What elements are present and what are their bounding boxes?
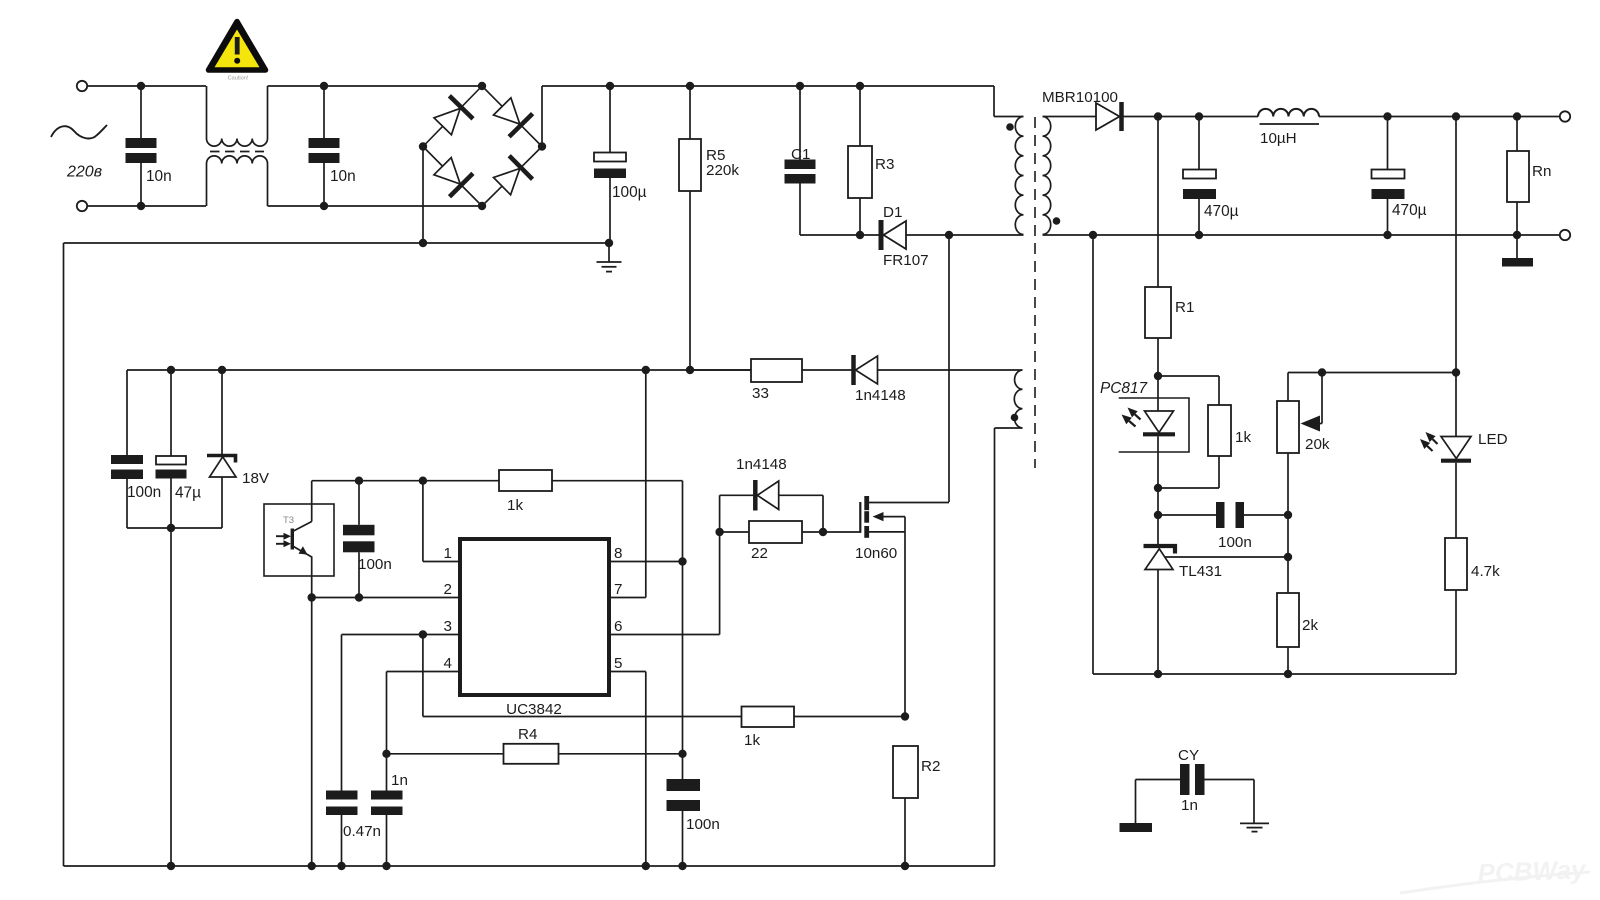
wire DC plus rail — [542, 86, 1024, 147]
node out+ at Rn — [1513, 112, 1521, 120]
label 220v — [66, 164, 102, 181]
svg-text:C1: C1 — [791, 146, 810, 163]
svg-text:PC817: PC817 — [1100, 380, 1148, 397]
transistor Q1 10n60 MOSFET — [860, 496, 949, 717]
wire 20k top rail — [1288, 373, 1456, 402]
svg-text:33: 33 — [752, 385, 769, 402]
diode 1n4148 aux — [854, 355, 1020, 385]
label 100u — [612, 184, 647, 201]
bridge diode BD4 (bottom-right) — [482, 147, 542, 207]
svg-text:1k: 1k — [1235, 429, 1251, 446]
wire DC minus bus — [64, 242, 610, 244]
ground bar at Rn — [1502, 258, 1533, 267]
svg-text:100n: 100n — [358, 556, 392, 573]
node DC plus at R3 — [856, 82, 864, 90]
label Rn — [1532, 163, 1551, 180]
U1 pin 4 stub — [387, 671, 461, 673]
resistor R1 — [1145, 117, 1171, 377]
label 100n aux — [127, 484, 161, 501]
svg-text:7: 7 — [614, 581, 622, 598]
wire output plus rail — [1122, 116, 1561, 118]
label 1n CY — [1181, 797, 1198, 814]
label pin 6 — [614, 618, 622, 635]
svg-text:TL431: TL431 — [1179, 563, 1222, 580]
capacitor 470u second — [1372, 117, 1405, 236]
svg-text:PCBWay: PCBWay — [1477, 854, 1587, 888]
label LED — [1478, 431, 1508, 448]
node bridge right — [538, 142, 546, 150]
svg-text:10n: 10n — [330, 168, 356, 185]
label 2k — [1302, 617, 1318, 634]
choke winding top — [207, 86, 268, 146]
svg-text:100n: 100n — [686, 816, 720, 833]
label 0.47n — [343, 823, 381, 840]
T3 phototransistor — [292, 504, 311, 576]
svg-text:470µ: 470µ — [1392, 202, 1427, 219]
node PC817 cathode — [1154, 484, 1162, 492]
capacitor 10n input-2 — [309, 86, 340, 206]
node gnd at 0.47n — [337, 862, 345, 870]
zener diode 18V — [207, 370, 236, 528]
label R1 — [1175, 299, 1194, 316]
diode MBR10100 — [1096, 102, 1122, 131]
svg-text:5: 5 — [614, 655, 622, 672]
wire aux bottom — [127, 527, 222, 529]
node source sense — [901, 712, 909, 720]
resistor 33 — [690, 359, 853, 382]
label pin 4 — [444, 655, 452, 672]
svg-text:D1: D1 — [883, 204, 902, 221]
label C1 — [791, 146, 810, 163]
wire T3 emitter down — [311, 576, 313, 866]
LED emission arrows — [1420, 432, 1438, 451]
node aux at R5 — [686, 366, 694, 374]
wire primary bottom — [949, 234, 1024, 236]
label 1k feedback — [1235, 429, 1251, 446]
node AC top at C-in1 — [137, 82, 145, 90]
svg-text:6: 6 — [614, 618, 622, 635]
wire pin8 net down — [682, 562, 684, 780]
capacitor CY — [1136, 764, 1255, 795]
label pin 5 — [614, 655, 622, 672]
svg-text:22: 22 — [751, 545, 768, 562]
svg-text:R2: R2 — [921, 758, 940, 775]
U1 pin 1 stub — [423, 481, 460, 562]
svg-text:18V: 18V — [242, 470, 270, 487]
node fb gnd at TL431 — [1154, 670, 1162, 678]
resistor R4 — [504, 744, 559, 764]
T3 light arrows — [276, 533, 291, 548]
potentiometer 20k — [1277, 373, 1322, 454]
capacitor 0.47n — [326, 635, 358, 867]
node gate-22 left — [715, 528, 723, 536]
label 47u — [175, 485, 201, 502]
node pin2 at 100n — [355, 593, 363, 601]
node out+ at R1 — [1154, 112, 1162, 120]
U1 pin 7 stub — [609, 370, 646, 598]
wire AC top rail — [87, 85, 206, 87]
resistor 1k sense — [742, 707, 795, 728]
U1 pin 3 stub — [342, 634, 461, 636]
label 470u first — [1204, 203, 1239, 220]
node R4 right — [678, 750, 686, 758]
node out+ at C-470u-2 — [1383, 112, 1391, 120]
label D1 — [883, 204, 902, 221]
node gnd at 1n — [382, 862, 390, 870]
node out- at Rn — [1513, 231, 1521, 239]
node gnd at pin5 — [642, 862, 650, 870]
node drain junction — [945, 231, 953, 239]
wire bridge minus down — [422, 147, 424, 244]
wire feedback ground bus — [1093, 235, 1456, 674]
svg-text:1n4148: 1n4148 — [855, 387, 906, 404]
U1 pin 5 stub — [609, 672, 646, 867]
wire 100n right — [1244, 514, 1288, 516]
node out+ at LED branch — [1452, 112, 1460, 120]
wire AC top rail segment 2 — [268, 85, 483, 87]
transformer T1 aux dot — [1011, 414, 1019, 422]
wire R4 right — [559, 753, 683, 755]
output terminal plus — [1560, 111, 1570, 121]
node LED branch mid — [1452, 368, 1460, 376]
label pin 8 — [614, 545, 622, 562]
label 100n feedback — [1218, 534, 1252, 551]
U1 pin 6 stub — [609, 495, 720, 634]
node gnd at R2 — [901, 862, 909, 870]
warning caution triangle — [209, 22, 266, 71]
wire drain vertical — [948, 235, 950, 502]
choke winding bottom — [207, 156, 268, 206]
node DC minus at bridge — [419, 239, 427, 247]
node aux at zener — [218, 366, 226, 374]
wire secondary bottom — [1043, 234, 1094, 236]
svg-text:1k: 1k — [744, 732, 760, 749]
U1 pin 2 stub — [312, 597, 460, 599]
svg-text:2: 2 — [444, 581, 452, 598]
PC817 LED — [1143, 376, 1175, 515]
wire 47u down — [170, 528, 172, 866]
resistor R5 — [679, 86, 701, 370]
node bridge top — [478, 82, 486, 90]
resistor 4.7k — [1445, 538, 1467, 674]
node out- at C-470u-1 — [1195, 231, 1203, 239]
svg-text:R3: R3 — [875, 156, 894, 173]
label R2 — [921, 758, 940, 775]
label 100n timing — [686, 816, 720, 833]
svg-text:100µ: 100µ — [612, 184, 647, 201]
svg-text:8: 8 — [614, 545, 622, 562]
node pin2 at T3 — [308, 593, 316, 601]
svg-text:LED: LED — [1478, 431, 1508, 448]
optocoupler T3 box — [264, 504, 334, 576]
label 33 — [752, 385, 769, 402]
wire 1k to cathode — [1158, 456, 1219, 488]
svg-text:1n: 1n — [391, 772, 408, 789]
node AC bottom at C-in1 — [137, 202, 145, 210]
wire left outline down — [63, 243, 65, 866]
transformer T1 aux winding — [995, 370, 1023, 428]
wire vcc to pin8 — [552, 481, 683, 562]
ground symbol secondary side — [1240, 823, 1269, 831]
svg-text:UC3842: UC3842 — [506, 701, 562, 718]
node DC plus at R5 — [686, 82, 694, 90]
svg-text:20k: 20k — [1305, 436, 1330, 453]
svg-text:220в: 220в — [66, 164, 102, 181]
capacitor 100u bulk — [594, 86, 626, 243]
label 18V — [242, 470, 270, 487]
svg-text:1n4148: 1n4148 — [736, 456, 787, 473]
watermark — [1400, 854, 1590, 893]
capacitor 100n timing — [667, 779, 701, 866]
label 1n4148 gate — [736, 456, 787, 473]
node TL431 top — [1154, 511, 1162, 519]
node vcc at pin1 — [419, 477, 427, 485]
label pin 1 — [444, 545, 452, 562]
wire to gate — [823, 531, 860, 533]
bridge diode BD1 (left-top) — [423, 86, 482, 147]
U1 pin 8 stub — [609, 561, 683, 563]
svg-text:MBR10100: MBR10100 — [1042, 89, 1118, 106]
label 1n4148 aux — [855, 387, 906, 404]
label pin 2 — [444, 581, 452, 598]
svg-text:Rn: Rn — [1532, 163, 1551, 180]
svg-text:0.47n: 0.47n — [343, 823, 381, 840]
node vcc at 100n — [355, 477, 363, 485]
label UC3842 — [506, 701, 562, 718]
capacitor 100n aux — [111, 370, 143, 528]
svg-text:47µ: 47µ — [175, 485, 201, 502]
svg-text:220k: 220k — [706, 162, 739, 179]
wire TL431 ref — [1165, 556, 1289, 558]
node snubber at R3 bottom — [856, 231, 864, 239]
wire CY left — [1135, 780, 1137, 824]
label TL431 — [1179, 563, 1222, 580]
capacitor 470u first — [1183, 117, 1216, 236]
node gnd at 100n timing — [678, 862, 686, 870]
optocoupler PC817 box — [1119, 398, 1189, 452]
label 4.7k — [1471, 563, 1500, 580]
node pin3 branch — [419, 630, 427, 638]
svg-text:1: 1 — [444, 545, 452, 562]
label CY — [1178, 747, 1199, 764]
wire CY right — [1253, 780, 1255, 824]
AC source sine symbol — [51, 125, 107, 138]
label Caution — [228, 76, 249, 82]
node DC plus at C1 — [796, 82, 804, 90]
svg-text:100n: 100n — [127, 484, 161, 501]
wire 1k sense to source — [794, 716, 905, 718]
resistor 22 — [720, 521, 823, 543]
wire aux supply rail — [127, 369, 751, 371]
node DC plus at 100u — [606, 82, 614, 90]
label pin 3 — [444, 618, 452, 635]
label 10n (input-2) — [330, 168, 356, 185]
svg-text:R4: R4 — [518, 726, 537, 743]
wire 100n left — [1158, 514, 1216, 516]
wire pin3 net down — [423, 635, 742, 717]
diode D1 FR107 — [860, 220, 949, 250]
label 10uH — [1260, 130, 1297, 147]
resistor 1k vcc — [499, 470, 552, 491]
resistor 2k divider — [1277, 453, 1299, 674]
label R3 — [875, 156, 894, 173]
label 20k — [1305, 436, 1330, 453]
shunt TL431 — [1144, 515, 1176, 674]
capacitor 47u — [156, 370, 187, 528]
wire primary ground bus — [64, 865, 996, 867]
node pin8 vref — [678, 557, 686, 565]
capacitor 100n feedback — [1216, 502, 1244, 528]
label 1k sense — [744, 732, 760, 749]
resistor R2 — [893, 746, 918, 866]
node AC top at C-in2 — [320, 82, 328, 90]
svg-text:CY: CY — [1178, 747, 1199, 764]
transformer T1 primary dot — [1006, 123, 1014, 131]
capacitor C1 — [785, 86, 861, 235]
svg-text:10µH: 10µH — [1260, 130, 1297, 147]
label 10n60 — [855, 545, 897, 562]
label 470u second — [1392, 202, 1427, 219]
label R4 — [518, 726, 537, 743]
AC input terminal top — [77, 81, 87, 91]
capacitor 10n input-1 — [126, 86, 157, 206]
svg-text:T3: T3 — [283, 515, 294, 526]
svg-text:1k: 1k — [507, 497, 523, 514]
resistor Rn — [1507, 117, 1529, 259]
node gnd at T3 emitter — [308, 862, 316, 870]
wire secondary top — [1043, 116, 1097, 118]
label PC817 — [1100, 380, 1148, 397]
svg-text:10n: 10n — [146, 168, 172, 185]
svg-text:10n60: 10n60 — [855, 545, 897, 562]
wire snubber top — [720, 494, 756, 496]
capacitor 100n vcc — [343, 481, 375, 598]
wire LED branch — [1455, 117, 1457, 437]
AC input terminal bottom — [77, 201, 87, 211]
inductor 10uH — [1258, 109, 1319, 124]
label T3 — [283, 515, 294, 526]
label pin 7 — [614, 581, 622, 598]
svg-text:4: 4 — [444, 655, 452, 672]
node gnd at 47u branch — [167, 862, 175, 870]
choke core dashes — [210, 151, 264, 153]
node divider bottom — [1284, 670, 1292, 678]
node R4 left — [382, 750, 390, 758]
node aux bottom at 47u — [167, 524, 175, 532]
node aux at pin7 branch — [642, 366, 650, 374]
label 1n timing — [391, 772, 408, 789]
svg-text:Caution!: Caution! — [228, 76, 249, 82]
wire AC bottom rail left — [87, 205, 206, 207]
output terminal minus — [1560, 230, 1570, 240]
label 100n vcc — [358, 556, 392, 573]
node DC minus at ground — [605, 239, 613, 247]
label 22 — [751, 545, 768, 562]
label 1k vcc — [507, 497, 523, 514]
node gate-22 right — [819, 528, 827, 536]
svg-text:470µ: 470µ — [1204, 203, 1239, 220]
svg-text:R1: R1 — [1175, 299, 1194, 316]
wire vcc net — [312, 481, 499, 504]
node divider mid at 100n — [1284, 511, 1292, 519]
node out- at fb branch — [1089, 231, 1097, 239]
label R5 — [706, 147, 725, 164]
svg-text:FR107: FR107 — [883, 252, 929, 269]
label FR107 — [883, 252, 929, 269]
node out- at C-470u-2 — [1383, 231, 1391, 239]
wire R4 row — [387, 753, 504, 755]
node aux at 47u — [167, 366, 175, 374]
wire output minus rail — [1093, 234, 1560, 236]
op-amp U1 UC3842 box — [460, 539, 609, 695]
label 10n (input-1) — [146, 168, 172, 185]
PC817 emission arrows — [1122, 408, 1141, 427]
capacitor 1n timing — [371, 672, 403, 867]
node out+ at C-470u-1 — [1195, 112, 1203, 120]
bridge diode BD2 (top-right) — [482, 86, 542, 147]
ground symbol at bulk cap — [597, 243, 622, 272]
label 220k — [706, 162, 739, 179]
transformer T1 primary winding — [1015, 117, 1023, 235]
transformer T1 secondary winding — [1043, 117, 1051, 235]
node R1 bottom — [1154, 372, 1162, 380]
node divider mid at ref — [1284, 553, 1292, 561]
indicator LED — [1441, 437, 1471, 539]
svg-text:2k: 2k — [1302, 617, 1318, 634]
diode 1n4148 gate — [755, 480, 823, 532]
svg-text:1n: 1n — [1181, 797, 1198, 814]
ground bar primary side — [1120, 823, 1153, 832]
svg-text:4.7k: 4.7k — [1471, 563, 1500, 580]
svg-text:100n: 100n — [1218, 534, 1252, 551]
node bridge left — [419, 142, 427, 150]
wire R1 to 1k — [1158, 376, 1219, 405]
transformer T1 secondary dot — [1053, 217, 1061, 225]
svg-text:3: 3 — [444, 618, 452, 635]
node AC bottom at C-in2 — [320, 202, 328, 210]
resistor 1k feedback — [1208, 405, 1231, 456]
wire aux winding return — [994, 428, 996, 866]
wire AC bottom rail segment 2 — [268, 205, 483, 207]
node bridge bottom — [478, 202, 486, 210]
label MBR10100 — [1042, 89, 1118, 106]
transformer core — [1034, 117, 1036, 468]
resistor R3 — [848, 86, 872, 235]
node wiper branch — [1318, 368, 1326, 376]
bridge diode BD3 (left-bottom) — [423, 147, 482, 207]
